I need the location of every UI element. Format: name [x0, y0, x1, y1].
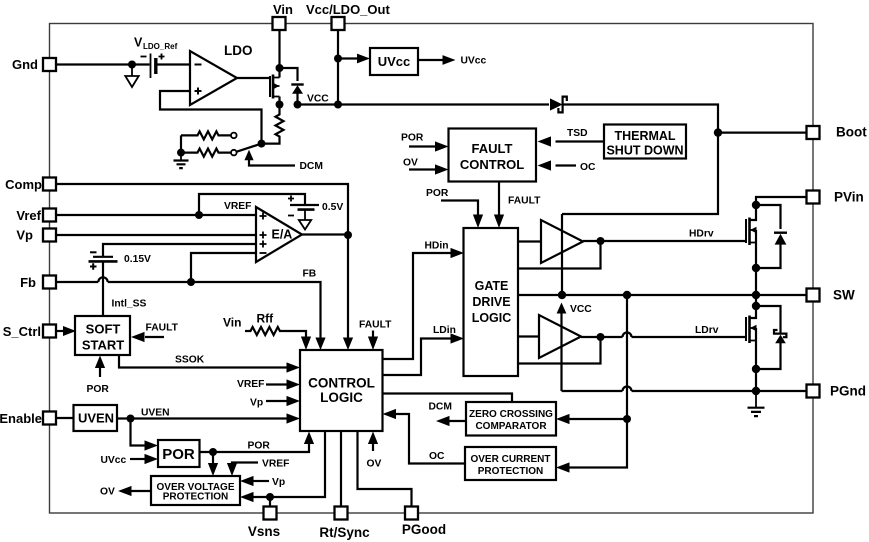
- ground (earth) at PGnd: [755, 391, 757, 408]
- op-amp LDO: [190, 51, 237, 105]
- svg-text:PROTECTION: PROTECTION: [478, 466, 544, 477]
- svg-text:Vp: Vp: [16, 228, 33, 243]
- svg-text:Intl_SS: Intl_SS: [112, 299, 147, 310]
- node Vsns junction: [266, 493, 274, 501]
- wire POR into soft start bottom: [99, 368, 101, 377]
- wire boot rail: [562, 105, 718, 215]
- resistor (divider upper, horizontal): [181, 131, 231, 139]
- wire PVin pin to high FET drain: [756, 197, 807, 205]
- svg-text:POR: POR: [162, 446, 195, 463]
- svg-text:VREF: VREF: [237, 379, 264, 390]
- svg-text:PROTECTION: PROTECTION: [163, 492, 229, 503]
- wire battery to op-amp: [156, 63, 190, 65]
- svg-text:FAULT: FAULT: [146, 323, 179, 334]
- block OVER VOLTAGE PROTECTION: [151, 476, 240, 505]
- svg-text:LOGIC: LOGIC: [472, 311, 512, 325]
- wire Gnd to battery: [56, 63, 150, 65]
- svg-text:Comp: Comp: [5, 177, 42, 192]
- pin Vsns: [248, 507, 280, 540]
- svg-text:VCC: VCC: [307, 94, 329, 105]
- pin Fb: [20, 275, 56, 290]
- svg-text:FAULT: FAULT: [359, 320, 392, 331]
- svg-text:Vp: Vp: [250, 398, 263, 409]
- svg-text:Enable: Enable: [0, 411, 42, 426]
- svg-text:FB: FB: [303, 269, 317, 280]
- svg-text:Vin: Vin: [223, 316, 241, 330]
- svg-text:SOFT: SOFT: [86, 322, 121, 337]
- svg-text:DRIVE: DRIVE: [472, 295, 510, 309]
- wire SW to low FET drain: [755, 295, 757, 306]
- svg-text:DCM: DCM: [429, 402, 452, 413]
- ground (earth) below divider: [180, 153, 182, 160]
- svg-text:0.15V: 0.15V: [124, 254, 151, 265]
- wire 0.15V to E/A input: [103, 244, 256, 257]
- wire LDrv output (hops over sense line): [581, 333, 746, 337]
- wire DCM output from comparator: [449, 420, 466, 422]
- svg-text:SW: SW: [833, 288, 855, 303]
- pin Vcc/LDO_Out: [306, 2, 390, 30]
- wire HDrv output: [583, 240, 746, 242]
- svg-text:OVER CURRENT: OVER CURRENT: [470, 454, 550, 465]
- pin PGnd: [807, 384, 867, 399]
- node VCC rail junction: [334, 101, 342, 109]
- svg-text:POR: POR: [248, 441, 271, 452]
- node divider tap: [258, 140, 266, 148]
- block UVcc: [370, 48, 418, 75]
- switch contact upper: [231, 133, 237, 139]
- wire E/A output: [302, 233, 348, 235]
- wire into comparator right: [569, 418, 627, 420]
- wire source to SW: [755, 268, 757, 295]
- node PGnd junction: [752, 387, 760, 395]
- block ZERO CROSSING COMPARATOR: [466, 402, 556, 436]
- svg-text:SSOK: SSOK: [175, 355, 205, 366]
- wire DCM control with arrow to switch: [244, 150, 253, 161]
- driver low-side buffer: [539, 315, 581, 358]
- driver high-side buffer: [541, 220, 583, 263]
- svg-text:UVcc: UVcc: [101, 455, 127, 466]
- svg-text:E/A: E/A: [272, 228, 293, 242]
- svg-text:FAULT: FAULT: [508, 196, 541, 207]
- block FAULT CONTROL: [449, 129, 537, 182]
- node Vin/drain junction: [276, 64, 284, 72]
- transistor pass FET (LDO): [269, 76, 271, 97]
- svg-text:THERMAL: THERMAL: [614, 129, 675, 143]
- wire FAULT output down to gate drive: [498, 182, 500, 216]
- svg-text:Rt/Sync: Rt/Sync: [319, 525, 370, 540]
- wire Enable to UVEN block: [56, 417, 74, 419]
- node HDrv junction: [597, 237, 605, 245]
- node boot pin junction: [714, 128, 722, 136]
- svg-text:UVEN: UVEN: [78, 411, 114, 426]
- transistor high-side FET: [750, 205, 757, 220]
- wire OC into control logic: [396, 414, 465, 464]
- svg-text:Gnd: Gnd: [12, 57, 38, 72]
- svg-text:LDO: LDO: [224, 43, 253, 58]
- svg-text:OC: OC: [580, 162, 596, 173]
- wire OV output from OVP: [131, 490, 151, 492]
- wire HDin to gate drive: [383, 253, 452, 359]
- node low FET source: [752, 365, 760, 373]
- pin SW: [807, 288, 856, 303]
- svg-text:HDrv: HDrv: [689, 229, 714, 240]
- pin Vref: [16, 208, 56, 223]
- svg-text:Boot: Boot: [836, 125, 867, 140]
- diode high FET body: [756, 205, 781, 229]
- node high FET source: [752, 264, 760, 272]
- wire PGnd line (hops over sense): [562, 387, 807, 391]
- svg-text:START: START: [82, 338, 124, 353]
- svg-text:VCC: VCC: [570, 304, 592, 315]
- battery 0.5V: [290, 204, 319, 206]
- node source/VCC junction: [276, 101, 284, 109]
- svg-text:UVEN: UVEN: [141, 408, 170, 419]
- diode boot (Schottky): [550, 98, 563, 110]
- node UVcc tap: [334, 55, 342, 63]
- svg-text:OC: OC: [429, 451, 445, 462]
- node POR branch: [209, 448, 217, 456]
- svg-text:OV: OV: [100, 487, 115, 498]
- switch contact lower: [231, 150, 237, 156]
- block GATE DRIVE LOGIC: [464, 228, 519, 376]
- svg-text:POR: POR: [401, 133, 424, 144]
- block SOFT START: [75, 316, 130, 355]
- node boot rail to SW: [558, 291, 566, 299]
- svg-text:OV: OV: [367, 459, 382, 470]
- switch DCM select blade: [236, 144, 261, 152]
- pin Rt/Sync: [319, 507, 370, 541]
- svg-text:GATE: GATE: [475, 279, 509, 293]
- ground (analog, open triangle) at Gnd: [131, 65, 133, 77]
- svg-text:DCM: DCM: [300, 161, 323, 172]
- wire S_Ctrl into soft start: [56, 330, 64, 332]
- node divider ground junction: [177, 149, 185, 157]
- svg-text:LDin: LDin: [433, 325, 456, 336]
- node diode/VCC junction: [294, 101, 302, 109]
- wire Vsns sense line: [253, 432, 325, 498]
- wire OV into control logic bottom: [372, 444, 374, 451]
- svg-text:S_Ctrl: S_Ctrl: [3, 324, 41, 339]
- wire Vp to E/A input: [56, 234, 256, 236]
- wire Vref to E/A input: [56, 214, 256, 216]
- wire Vin pin down to pass FET drain: [278, 30, 280, 78]
- svg-text:Fb: Fb: [20, 275, 36, 290]
- wire op-amp output to pass FET gate: [237, 77, 270, 79]
- svg-text:VREF: VREF: [262, 459, 289, 470]
- wire drain node to LDO diode: [280, 68, 298, 81]
- block POR: [158, 440, 200, 467]
- wire Fb line (hops over Intl_SS): [56, 277, 321, 341]
- node high FET drain: [752, 201, 760, 209]
- battery 0.15V: [93, 256, 113, 258]
- node FB junction: [187, 278, 195, 286]
- wire UVcc output: [418, 59, 443, 61]
- svg-text:COMPARATOR: COMPARATOR: [475, 421, 547, 432]
- diode low FET body (Schottky): [756, 306, 781, 334]
- pin Gnd: [12, 57, 56, 72]
- svg-text:0.5V: 0.5V: [322, 202, 343, 213]
- wire pass FET source to VCC node: [278, 97, 280, 105]
- svg-text:LDO_Ref: LDO_Ref: [143, 42, 178, 51]
- wire SSOK to control logic: [119, 355, 287, 368]
- pin PVin: [807, 190, 864, 205]
- pin Enable: [0, 411, 56, 426]
- wire VCC arrow supply for low driver: [557, 303, 567, 314]
- node sense to comparator: [623, 415, 631, 423]
- wire gate drive to low driver input: [518, 335, 539, 337]
- svg-text:SHUT DOWN: SHUT DOWN: [606, 144, 683, 158]
- svg-text:TSD: TSD: [567, 128, 588, 139]
- transistor low-side FET: [750, 306, 757, 318]
- wire into UVcc block: [338, 57, 358, 59]
- svg-text:PVin: PVin: [834, 190, 864, 205]
- svg-text:Vp: Vp: [272, 477, 285, 488]
- pin Boot: [807, 125, 868, 140]
- node SW sense junction: [623, 291, 631, 299]
- svg-text:Vcc/LDO_Out: Vcc/LDO_Out: [306, 2, 390, 17]
- wire POR branch down into OVP: [212, 452, 214, 463]
- wire boot rail through high driver: [561, 214, 563, 295]
- svg-text:CONTROL: CONTROL: [460, 157, 524, 172]
- wire to Boot pin: [718, 132, 807, 134]
- node SW fet junction: [752, 291, 760, 299]
- resistor (LDO feedback, vertical): [262, 105, 284, 144]
- svg-text:Vsns: Vsns: [248, 524, 280, 539]
- node Comp/EA output junction: [344, 231, 352, 239]
- node UVEN branch: [127, 415, 135, 423]
- svg-text:ZERO CROSSING: ZERO CROSSING: [469, 409, 553, 420]
- svg-text:FAULT: FAULT: [472, 141, 513, 156]
- wire PGood to control logic: [358, 432, 412, 507]
- pin Vin: [273, 2, 294, 30]
- wire POR output to control logic bottom: [200, 444, 310, 452]
- wire high driver feedback: [518, 241, 601, 269]
- svg-text:POR: POR: [426, 188, 449, 199]
- IC outer border: [50, 24, 814, 514]
- wire control to zero crossing comparator: [383, 394, 513, 403]
- svg-text:VREF: VREF: [224, 201, 251, 212]
- wire Vsns pin up: [269, 497, 271, 507]
- svg-text:UVcc: UVcc: [378, 54, 411, 69]
- block CONTROL LOGIC: [300, 350, 383, 431]
- node Gnd junction: [128, 61, 136, 69]
- wire op-amp feedback loop: [160, 91, 262, 144]
- svg-text:CONTROL: CONTROL: [308, 376, 375, 391]
- svg-text:LOGIC: LOGIC: [320, 390, 363, 405]
- svg-text:LDrv: LDrv: [695, 325, 719, 336]
- block OVER CURRENT PROTECTION: [465, 447, 556, 480]
- block UVEN: [74, 405, 118, 431]
- arrow into OCP right: [556, 462, 570, 472]
- ground (analog) below 0.5V: [304, 210, 306, 220]
- wire Comp to E/A output: [56, 184, 348, 341]
- wire source to PGnd line: [755, 369, 757, 391]
- svg-text:HDin: HDin: [425, 241, 449, 252]
- svg-text:Rff: Rff: [257, 312, 275, 326]
- wire divider left leg: [180, 135, 182, 152]
- svg-text:Vin: Vin: [273, 2, 293, 17]
- svg-text:PGnd: PGnd: [830, 384, 866, 399]
- wire LDin to gate drive: [383, 339, 452, 376]
- wire Intl_SS from 0.15V down to soft start (hops over Fb): [102, 261, 104, 316]
- wire VCC rail to boot diode: [298, 103, 550, 105]
- svg-text:POR: POR: [87, 384, 110, 395]
- svg-text:UVcc: UVcc: [461, 56, 487, 67]
- wire UVEN branch into POR block: [131, 419, 146, 446]
- node LDrv junction: [597, 333, 605, 341]
- pin Comp: [5, 177, 56, 192]
- wire gate drive to high driver input: [518, 240, 541, 242]
- svg-text:Vref: Vref: [16, 208, 41, 223]
- wire SW line from gate drive to SW pin: [518, 294, 807, 296]
- diode (LDO clamp): [291, 83, 303, 85]
- wire VREF reference loop: [199, 194, 305, 215]
- wire low driver feedback: [518, 337, 601, 364]
- node low FET drain: [752, 302, 760, 310]
- block THERMAL SHUT DOWN: [604, 125, 686, 159]
- pin PGood: [402, 507, 446, 538]
- resistor (divider lower, horizontal): [181, 149, 231, 157]
- wire Rt/Sync to control logic: [340, 432, 342, 507]
- wire SW sense down to comparator and OCP: [569, 295, 627, 468]
- battery V_LDO_Ref: [150, 54, 152, 79]
- svg-text:V: V: [134, 36, 143, 50]
- pin S_Ctrl: [3, 324, 56, 339]
- pin Vp: [16, 228, 56, 243]
- svg-text:PGood: PGood: [402, 522, 446, 537]
- wire Vcc/LDO_Out pin down to VCC rail: [337, 30, 339, 105]
- op-amp E/A: [256, 207, 302, 262]
- wire UVEN output to control logic: [117, 417, 287, 419]
- node VREF tap: [195, 211, 203, 219]
- svg-text:OV: OV: [403, 158, 418, 169]
- wire E/A inverting input from FB: [191, 253, 256, 282]
